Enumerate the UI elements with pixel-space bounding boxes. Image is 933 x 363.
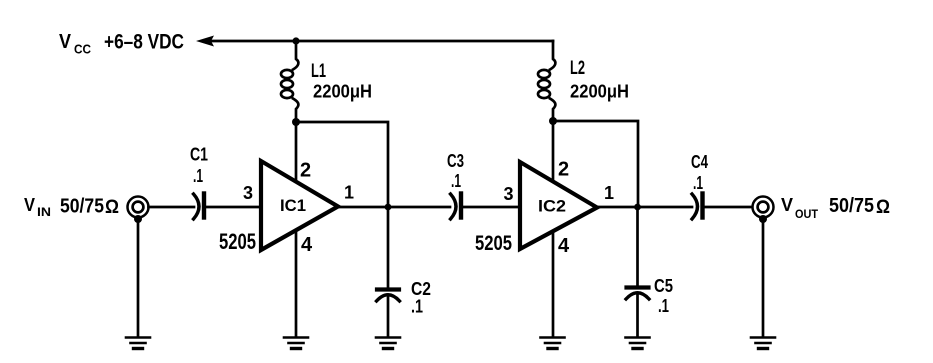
svg-text:OUT: OUT	[795, 207, 819, 221]
wire C5 branch	[636, 207, 639, 285]
wire IC2 output	[597, 206, 692, 209]
inductor L2	[538, 41, 555, 121]
wire C2 to ground	[387, 296, 390, 336]
svg-text:3: 3	[243, 183, 253, 203]
label L1 value	[311, 61, 372, 102]
svg-text:3: 3	[504, 184, 514, 204]
wire C2 branch	[387, 207, 390, 287]
capacitor C2	[377, 290, 400, 302]
node junction C5	[634, 204, 641, 211]
wire C1 to IC1 pin3	[206, 206, 260, 209]
ground C2	[376, 338, 400, 349]
label C5 value	[654, 276, 673, 316]
node junction VCC/L1	[292, 37, 299, 44]
capacitor C1	[194, 194, 205, 220]
svg-text:2: 2	[300, 160, 311, 182]
label C3 value	[447, 151, 464, 191]
svg-text:50/75: 50/75	[60, 196, 104, 218]
svg-text:4: 4	[558, 235, 570, 257]
svg-text:.1: .1	[658, 296, 669, 316]
svg-text:1: 1	[344, 183, 354, 203]
node junction C2	[385, 204, 392, 211]
ground IC1 pin4	[284, 338, 308, 349]
svg-text:.1: .1	[693, 173, 703, 193]
wire IC1 output	[338, 206, 450, 209]
connector J2 output	[753, 197, 774, 224]
svg-text:CC: CC	[74, 42, 92, 57]
label C2 value	[411, 279, 431, 317]
svg-text:1: 1	[604, 183, 614, 203]
capacitor C5	[626, 288, 649, 300]
svg-text:2: 2	[558, 159, 569, 181]
svg-text:4: 4	[301, 234, 313, 256]
label C1 value	[190, 145, 208, 187]
wire IC1 pin4	[295, 230, 298, 336]
wire C3 to IC2 pin3	[463, 206, 519, 209]
wire IC1 pin2	[295, 122, 298, 181]
svg-text:Ω: Ω	[876, 197, 890, 218]
svg-text:IN: IN	[37, 205, 51, 219]
svg-text:L2: L2	[570, 58, 585, 79]
node junction L2 bottom	[549, 117, 557, 125]
wire VCC rail	[212, 40, 553, 43]
op-amp IC1	[261, 161, 338, 250]
wire J2 to ground	[762, 221, 765, 336]
label L2 value	[570, 58, 629, 102]
svg-text:.1: .1	[411, 297, 423, 317]
svg-text:IC1: IC1	[280, 197, 306, 215]
op-amp IC2	[520, 162, 597, 249]
net VCC label	[59, 31, 184, 57]
ground J1	[126, 338, 150, 349]
svg-text:C4: C4	[691, 152, 708, 172]
wire feedback IC1	[296, 122, 388, 205]
svg-text:.1: .1	[193, 166, 203, 186]
svg-text:IC2: IC2	[538, 198, 566, 216]
svg-text:V: V	[781, 194, 794, 215]
svg-text:5205: 5205	[219, 229, 256, 254]
capacitor C4	[692, 194, 703, 220]
wire C5 to ground	[636, 294, 639, 336]
label C4 value	[691, 152, 708, 193]
wire input to C1	[149, 206, 195, 209]
connector J1 input	[128, 197, 149, 224]
svg-text:V: V	[24, 194, 36, 215]
inductor L1	[281, 41, 298, 122]
wire C4 to J2	[705, 206, 753, 209]
svg-text:V: V	[59, 31, 72, 53]
ground J2	[751, 338, 775, 349]
svg-text:2200μH: 2200μH	[313, 82, 372, 102]
arrow VCC feed	[196, 36, 214, 47]
ground C5	[626, 338, 650, 349]
node junction L1 bottom	[292, 118, 300, 126]
svg-text:C3: C3	[447, 151, 464, 171]
wire IC2 pin4	[552, 231, 555, 336]
svg-text:Ω: Ω	[105, 197, 119, 218]
label VOUT	[781, 194, 890, 221]
svg-text:C1: C1	[190, 145, 208, 165]
capacitor C3	[451, 194, 462, 220]
ground IC2 pin4	[541, 338, 565, 349]
svg-text:L1: L1	[311, 61, 326, 82]
wire feedback IC2	[553, 121, 638, 205]
wire IC2 pin2	[552, 121, 555, 181]
svg-text:C5: C5	[654, 276, 673, 296]
label VIN	[24, 194, 119, 219]
svg-text:+6–8 VDC: +6–8 VDC	[104, 31, 184, 54]
svg-text:.1: .1	[451, 171, 461, 191]
svg-text:50/75: 50/75	[829, 195, 874, 217]
svg-text:5205: 5205	[475, 232, 512, 255]
svg-text:2200μH: 2200μH	[570, 82, 629, 102]
wire J1 to ground	[137, 221, 140, 336]
